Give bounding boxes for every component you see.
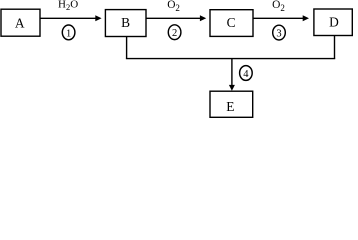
svg-text:E: E [226,99,234,114]
svg-text:2: 2 [172,28,177,39]
svg-text:4: 4 [243,69,249,80]
wire arrow 2 B to C [147,17,201,19]
svg-text:C: C [227,15,236,30]
box D [314,9,352,36]
box A [1,9,40,36]
svg-text:D: D [329,15,339,30]
svg-text:O2: O2 [167,0,180,13]
wire arrow 4 down to E [231,59,233,86]
wire D drop [334,36,336,59]
box E [210,91,253,117]
wire collector [126,58,335,60]
arrowhead 1 [95,15,101,21]
svg-text:1: 1 [66,28,71,39]
node circled 3 [273,25,286,40]
node circled 1 [62,25,75,40]
svg-text:A: A [15,16,25,31]
arrowhead 4 [229,85,235,91]
svg-text:O2: O2 [272,0,285,13]
svg-text:3: 3 [276,29,281,40]
node circled 4 [240,66,253,81]
arrowhead 2 [200,15,206,21]
box C [210,10,253,37]
wire B drop [126,37,128,59]
wire arrow 1 A to B [41,17,96,19]
svg-text:H2O: H2O [58,0,78,12]
wire arrow 3 C to D [254,17,304,19]
arrowhead 3 [303,15,309,21]
svg-text:B: B [121,15,130,30]
box B [105,10,146,37]
node circled 2 [168,25,181,40]
